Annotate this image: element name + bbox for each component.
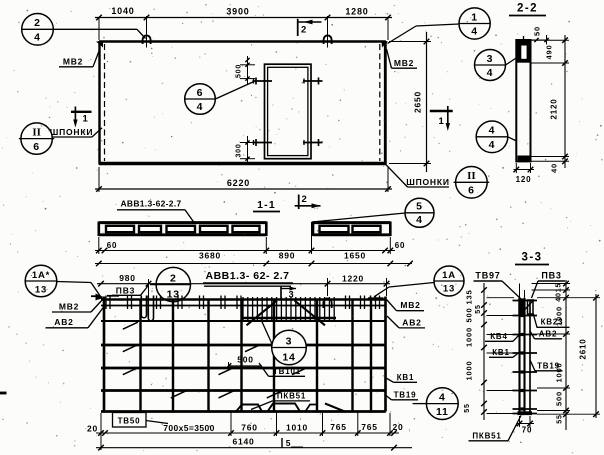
label AV2 mesh-right bbox=[387, 316, 425, 328]
1-1 lower reference line bbox=[95, 261, 413, 267]
dim 120 (2-2 bottom) bbox=[514, 163, 535, 184]
svg-text:890: 890 bbox=[279, 251, 296, 261]
3-3 main bar left bbox=[518, 298, 520, 415]
beam segment left (1-1) bbox=[99, 222, 266, 237]
opening dim 300 (bottom) bbox=[236, 136, 256, 165]
svg-text:765: 765 bbox=[330, 422, 347, 432]
3-3 top extension lines bbox=[520, 284, 525, 298]
svg-text:500: 500 bbox=[555, 391, 564, 406]
svg-text:13: 13 bbox=[35, 284, 47, 295]
label KV1 (3-3) bbox=[489, 348, 520, 357]
svg-text:2120: 2120 bbox=[550, 99, 559, 120]
svg-text:ТВ97: ТВ97 bbox=[475, 271, 500, 281]
callout 3/4 bbox=[475, 50, 518, 81]
label AV2 (3-3) bbox=[530, 330, 562, 339]
svg-text:1А: 1А bbox=[442, 270, 456, 281]
lifting loop right (plan) bbox=[324, 16, 332, 48]
embedded anchor opening top-left bbox=[253, 80, 273, 82]
svg-text:1: 1 bbox=[471, 11, 478, 23]
3-3 overall dimension 2610 bbox=[579, 294, 599, 418]
corner anchor mark top-left bbox=[96, 42, 103, 48]
svg-text:4: 4 bbox=[197, 101, 204, 113]
bent bar PKV51 right bbox=[268, 404, 346, 413]
svg-text:2650: 2650 bbox=[413, 91, 423, 113]
svg-text:2: 2 bbox=[34, 17, 41, 29]
svg-text:1650: 1650 bbox=[344, 251, 366, 261]
left margin mark bbox=[0, 392, 7, 395]
svg-text:3680: 3680 bbox=[199, 251, 221, 261]
label TV19 (mesh) bbox=[386, 391, 418, 400]
label PKV51 (3-3) bbox=[469, 416, 522, 441]
mesh bottom chord bbox=[101, 410, 386, 413]
svg-text:120: 120 bbox=[516, 175, 532, 184]
svg-text:1040: 1040 bbox=[111, 6, 134, 16]
mesh row 3 bbox=[101, 344, 386, 347]
svg-text:II: II bbox=[467, 170, 476, 182]
svg-text:АВ2: АВ2 bbox=[539, 330, 557, 339]
callout 4/4 bbox=[476, 121, 516, 153]
mesh left edge bbox=[103, 297, 106, 412]
svg-text:760: 760 bbox=[241, 423, 258, 433]
callout 1A/13 bbox=[374, 266, 464, 297]
svg-text:МВ2: МВ2 bbox=[400, 300, 420, 310]
svg-text:АВВ1.3-62-2.7: АВВ1.3-62-2.7 bbox=[120, 199, 181, 209]
callout 1A*/13 bbox=[25, 265, 103, 299]
dim 70 (3-3 bottom) bbox=[517, 416, 535, 435]
label SHPONKI left bbox=[50, 127, 102, 137]
svg-text:4: 4 bbox=[416, 214, 423, 226]
svg-text:МВ2: МВ2 bbox=[59, 302, 79, 312]
svg-text:6: 6 bbox=[33, 141, 40, 153]
svg-text:11: 11 bbox=[436, 406, 449, 418]
label MV2 mesh-left bbox=[52, 299, 104, 313]
label SHPONKI right bbox=[386, 164, 450, 187]
bent bar PKV51 left bbox=[236, 405, 262, 412]
3-3 right dimension line bbox=[532, 280, 601, 430]
right dimension line 2650 bbox=[389, 32, 431, 172]
section 2-2 bottom block bbox=[518, 156, 531, 162]
section cut 2 bottom marker bbox=[295, 194, 321, 209]
label PV3 (mesh top) bbox=[112, 279, 149, 296]
panel outline (plan view) bbox=[99, 41, 386, 165]
svg-text:60: 60 bbox=[395, 241, 406, 250]
svg-text:ПКВ51: ПКВ51 bbox=[277, 392, 306, 401]
svg-text:135: 135 bbox=[465, 290, 474, 305]
svg-text:ТВ19: ТВ19 bbox=[394, 391, 417, 400]
callout 6/4 bbox=[185, 82, 254, 115]
panel dashed joint line left bbox=[104, 44, 106, 161]
svg-text:1220: 1220 bbox=[342, 274, 364, 284]
3-3 secondary bar bbox=[529, 300, 531, 414]
svg-text:1280: 1280 bbox=[345, 7, 368, 17]
title 2-2 bbox=[509, 3, 546, 16]
svg-text:4: 4 bbox=[34, 32, 41, 44]
svg-text:ШПОНКИ: ШПОНКИ bbox=[50, 127, 94, 137]
svg-text:20: 20 bbox=[392, 422, 403, 432]
svg-text:5: 5 bbox=[286, 438, 292, 448]
svg-text:6: 6 bbox=[468, 185, 475, 197]
svg-text:МВ2: МВ2 bbox=[394, 58, 414, 68]
section cut 2 top marker bbox=[298, 19, 322, 36]
embedded anchor opening bottom-right bbox=[303, 142, 323, 144]
svg-text:500: 500 bbox=[237, 355, 254, 365]
3-3 horizontal bar crossings bbox=[513, 299, 538, 415]
svg-text:55: 55 bbox=[557, 414, 564, 423]
panel dashed joint line right bbox=[379, 44, 381, 161]
3-3 main bar right bbox=[523, 298, 525, 415]
lifting loop left (plan) bbox=[143, 16, 151, 48]
svg-text:КВ1: КВ1 bbox=[397, 373, 415, 382]
section 2-2 top anchor block bbox=[517, 36, 530, 63]
mesh row 5 bbox=[101, 389, 386, 392]
svg-text:6: 6 bbox=[197, 87, 204, 99]
section cut 1 marker right bbox=[430, 106, 453, 131]
embedded anchor opening bottom-left bbox=[253, 142, 273, 144]
3-3 bottom cap bbox=[518, 411, 533, 415]
svg-text:20: 20 bbox=[87, 424, 98, 434]
title ABB1.3-62-2.7 (mesh) bbox=[203, 270, 293, 286]
svg-text:700х5=3500: 700х5=3500 bbox=[163, 423, 215, 433]
svg-text:55: 55 bbox=[464, 403, 471, 412]
svg-text:ШПОНКИ: ШПОНКИ bbox=[406, 177, 450, 187]
mesh overall dimension 6140 bbox=[96, 437, 412, 451]
svg-text:4: 4 bbox=[489, 125, 496, 137]
svg-text:14: 14 bbox=[282, 351, 295, 363]
svg-text:ПВ3: ПВ3 bbox=[541, 271, 561, 281]
label MV2 top-right bbox=[387, 49, 418, 68]
callout 1/4 bbox=[388, 8, 491, 44]
svg-text:II: II bbox=[32, 126, 41, 138]
svg-text:50: 50 bbox=[533, 26, 542, 36]
svg-text:500: 500 bbox=[236, 64, 243, 78]
2-2 right dimension line bbox=[532, 35, 570, 168]
svg-text:АВ2: АВ2 bbox=[54, 317, 73, 327]
section cut 1 marker left bbox=[71, 107, 92, 128]
dense stirrup cluster (over opening) bbox=[242, 297, 336, 321]
label TV101 bbox=[259, 363, 305, 376]
svg-text:15: 15 bbox=[556, 283, 563, 292]
corner flag mesh top-left bbox=[91, 294, 119, 301]
callout 2/4 bbox=[22, 13, 146, 45]
svg-text:60: 60 bbox=[107, 241, 118, 250]
title 1-1 bbox=[253, 199, 280, 212]
svg-text:40: 40 bbox=[550, 163, 559, 173]
svg-text:2: 2 bbox=[170, 272, 177, 284]
section cut 3 marker bbox=[281, 286, 296, 300]
corner anchor mark top-right bbox=[382, 42, 389, 48]
callout II/6 right bbox=[456, 167, 488, 199]
section cut 5 mark (bottom) bbox=[282, 438, 303, 448]
svg-text:55: 55 bbox=[475, 304, 482, 313]
callout 2/13 bbox=[150, 267, 191, 301]
svg-text:4: 4 bbox=[471, 26, 478, 38]
title 3-3 bbox=[515, 252, 549, 265]
svg-text:3: 3 bbox=[289, 290, 295, 300]
label ABB1.3-62-2.7 (1-1) bbox=[117, 199, 194, 223]
svg-text:300: 300 bbox=[236, 143, 243, 157]
svg-text:500: 500 bbox=[465, 308, 474, 323]
top dimension line bbox=[95, 15, 392, 40]
svg-text:2610: 2610 bbox=[579, 339, 588, 360]
callout II/6 left bbox=[21, 123, 52, 154]
mesh row 4 bbox=[101, 367, 386, 370]
corner flag mesh top-right bbox=[368, 296, 384, 302]
svg-text:1-1: 1-1 bbox=[257, 199, 276, 211]
svg-text:4: 4 bbox=[489, 139, 496, 151]
label KV4 bbox=[485, 332, 520, 341]
label PV3 (3-3) bbox=[532, 271, 566, 299]
label MV2 mesh-right bbox=[387, 300, 425, 311]
svg-text:ТВ101: ТВ101 bbox=[273, 367, 301, 376]
bent bar diagonal right bbox=[295, 301, 326, 326]
svg-text:1А*: 1А* bbox=[32, 270, 50, 281]
3-3 top hook cluster bbox=[518, 299, 534, 317]
callout 5/4 bbox=[312, 198, 434, 227]
opening dim 500 (top) bbox=[236, 56, 256, 84]
svg-text:ПКВ51: ПКВ51 bbox=[472, 432, 501, 441]
label TV97 bbox=[474, 271, 522, 300]
svg-text:1000: 1000 bbox=[465, 327, 474, 347]
svg-text:1010: 1010 bbox=[286, 423, 308, 433]
svg-text:2: 2 bbox=[301, 25, 307, 36]
svg-text:КВ23: КВ23 bbox=[541, 318, 564, 327]
label KV1 (mesh) bbox=[386, 373, 417, 382]
label AV2 mesh-left bbox=[46, 305, 106, 328]
callout 3/14 bbox=[261, 320, 306, 365]
transverse bar ticks on top chord bbox=[106, 296, 380, 310]
mesh chord row 2 bbox=[101, 320, 386, 322]
svg-text:70: 70 bbox=[522, 426, 533, 435]
label PKV51 bbox=[251, 392, 310, 410]
svg-text:13: 13 bbox=[443, 284, 455, 295]
svg-text:КВ4: КВ4 bbox=[490, 332, 508, 341]
svg-text:ТВ50: ТВ50 bbox=[118, 417, 141, 426]
svg-text:4: 4 bbox=[439, 391, 446, 403]
mesh top chord bbox=[101, 300, 386, 306]
svg-text:765: 765 bbox=[361, 422, 378, 432]
label TV19 (3-3) bbox=[530, 360, 563, 371]
3-3 left dimension line bbox=[481, 283, 514, 420]
hairpin PV3 bars bbox=[141, 296, 153, 321]
embedded anchor opening top-right bbox=[303, 80, 323, 82]
mesh right edge bbox=[384, 297, 387, 412]
svg-text:1000: 1000 bbox=[465, 361, 474, 381]
lifting loop (mesh) bbox=[323, 298, 331, 308]
svg-text:5: 5 bbox=[416, 201, 423, 213]
label MV2 top-left bbox=[59, 49, 100, 67]
bent bar diagonal left bbox=[247, 301, 278, 326]
svg-text:ПВ3: ПВ3 bbox=[116, 286, 135, 296]
svg-text:3: 3 bbox=[487, 53, 494, 65]
mesh vertical bars bbox=[141, 299, 372, 412]
label KV23 bbox=[533, 313, 570, 327]
bar splice marks bbox=[123, 322, 307, 398]
dim 50 (2-2 top) bbox=[531, 26, 550, 44]
svg-text:6140: 6140 bbox=[232, 437, 254, 447]
opening frame inner bbox=[268, 67, 308, 155]
svg-text:2-2: 2-2 bbox=[517, 3, 538, 15]
mesh bottom dimension line bbox=[96, 412, 399, 450]
svg-text:6220: 6220 bbox=[227, 178, 250, 188]
mesh top dimension line bbox=[97, 278, 390, 296]
svg-text:3-3: 3-3 bbox=[521, 252, 542, 264]
opening frame outer bbox=[265, 64, 312, 159]
1-1 dimension line bbox=[95, 222, 395, 254]
section 2-2 column outline bbox=[516, 40, 530, 161]
label TV50 box bbox=[113, 413, 169, 428]
svg-text:ТВ19: ТВ19 bbox=[537, 362, 560, 371]
beam segment right (1-1) bbox=[313, 222, 390, 237]
svg-text:2: 2 bbox=[301, 194, 307, 205]
svg-text:АВВ1.3- 62- 2.7: АВВ1.3- 62- 2.7 bbox=[206, 270, 290, 282]
bottom dimension line 6220 bbox=[95, 167, 392, 192]
svg-text:МВ2: МВ2 bbox=[63, 57, 83, 67]
svg-text:490: 490 bbox=[545, 45, 554, 60]
svg-text:АВ2: АВ2 bbox=[402, 318, 421, 328]
dim 500 (mesh) bbox=[226, 355, 262, 372]
callout 4/11 bbox=[413, 388, 459, 420]
svg-text:980: 980 bbox=[119, 273, 136, 283]
svg-text:1: 1 bbox=[439, 116, 445, 127]
svg-text:1: 1 bbox=[83, 114, 89, 125]
svg-text:40: 40 bbox=[556, 292, 563, 301]
svg-text:3: 3 bbox=[286, 335, 293, 347]
svg-text:4: 4 bbox=[487, 67, 494, 79]
